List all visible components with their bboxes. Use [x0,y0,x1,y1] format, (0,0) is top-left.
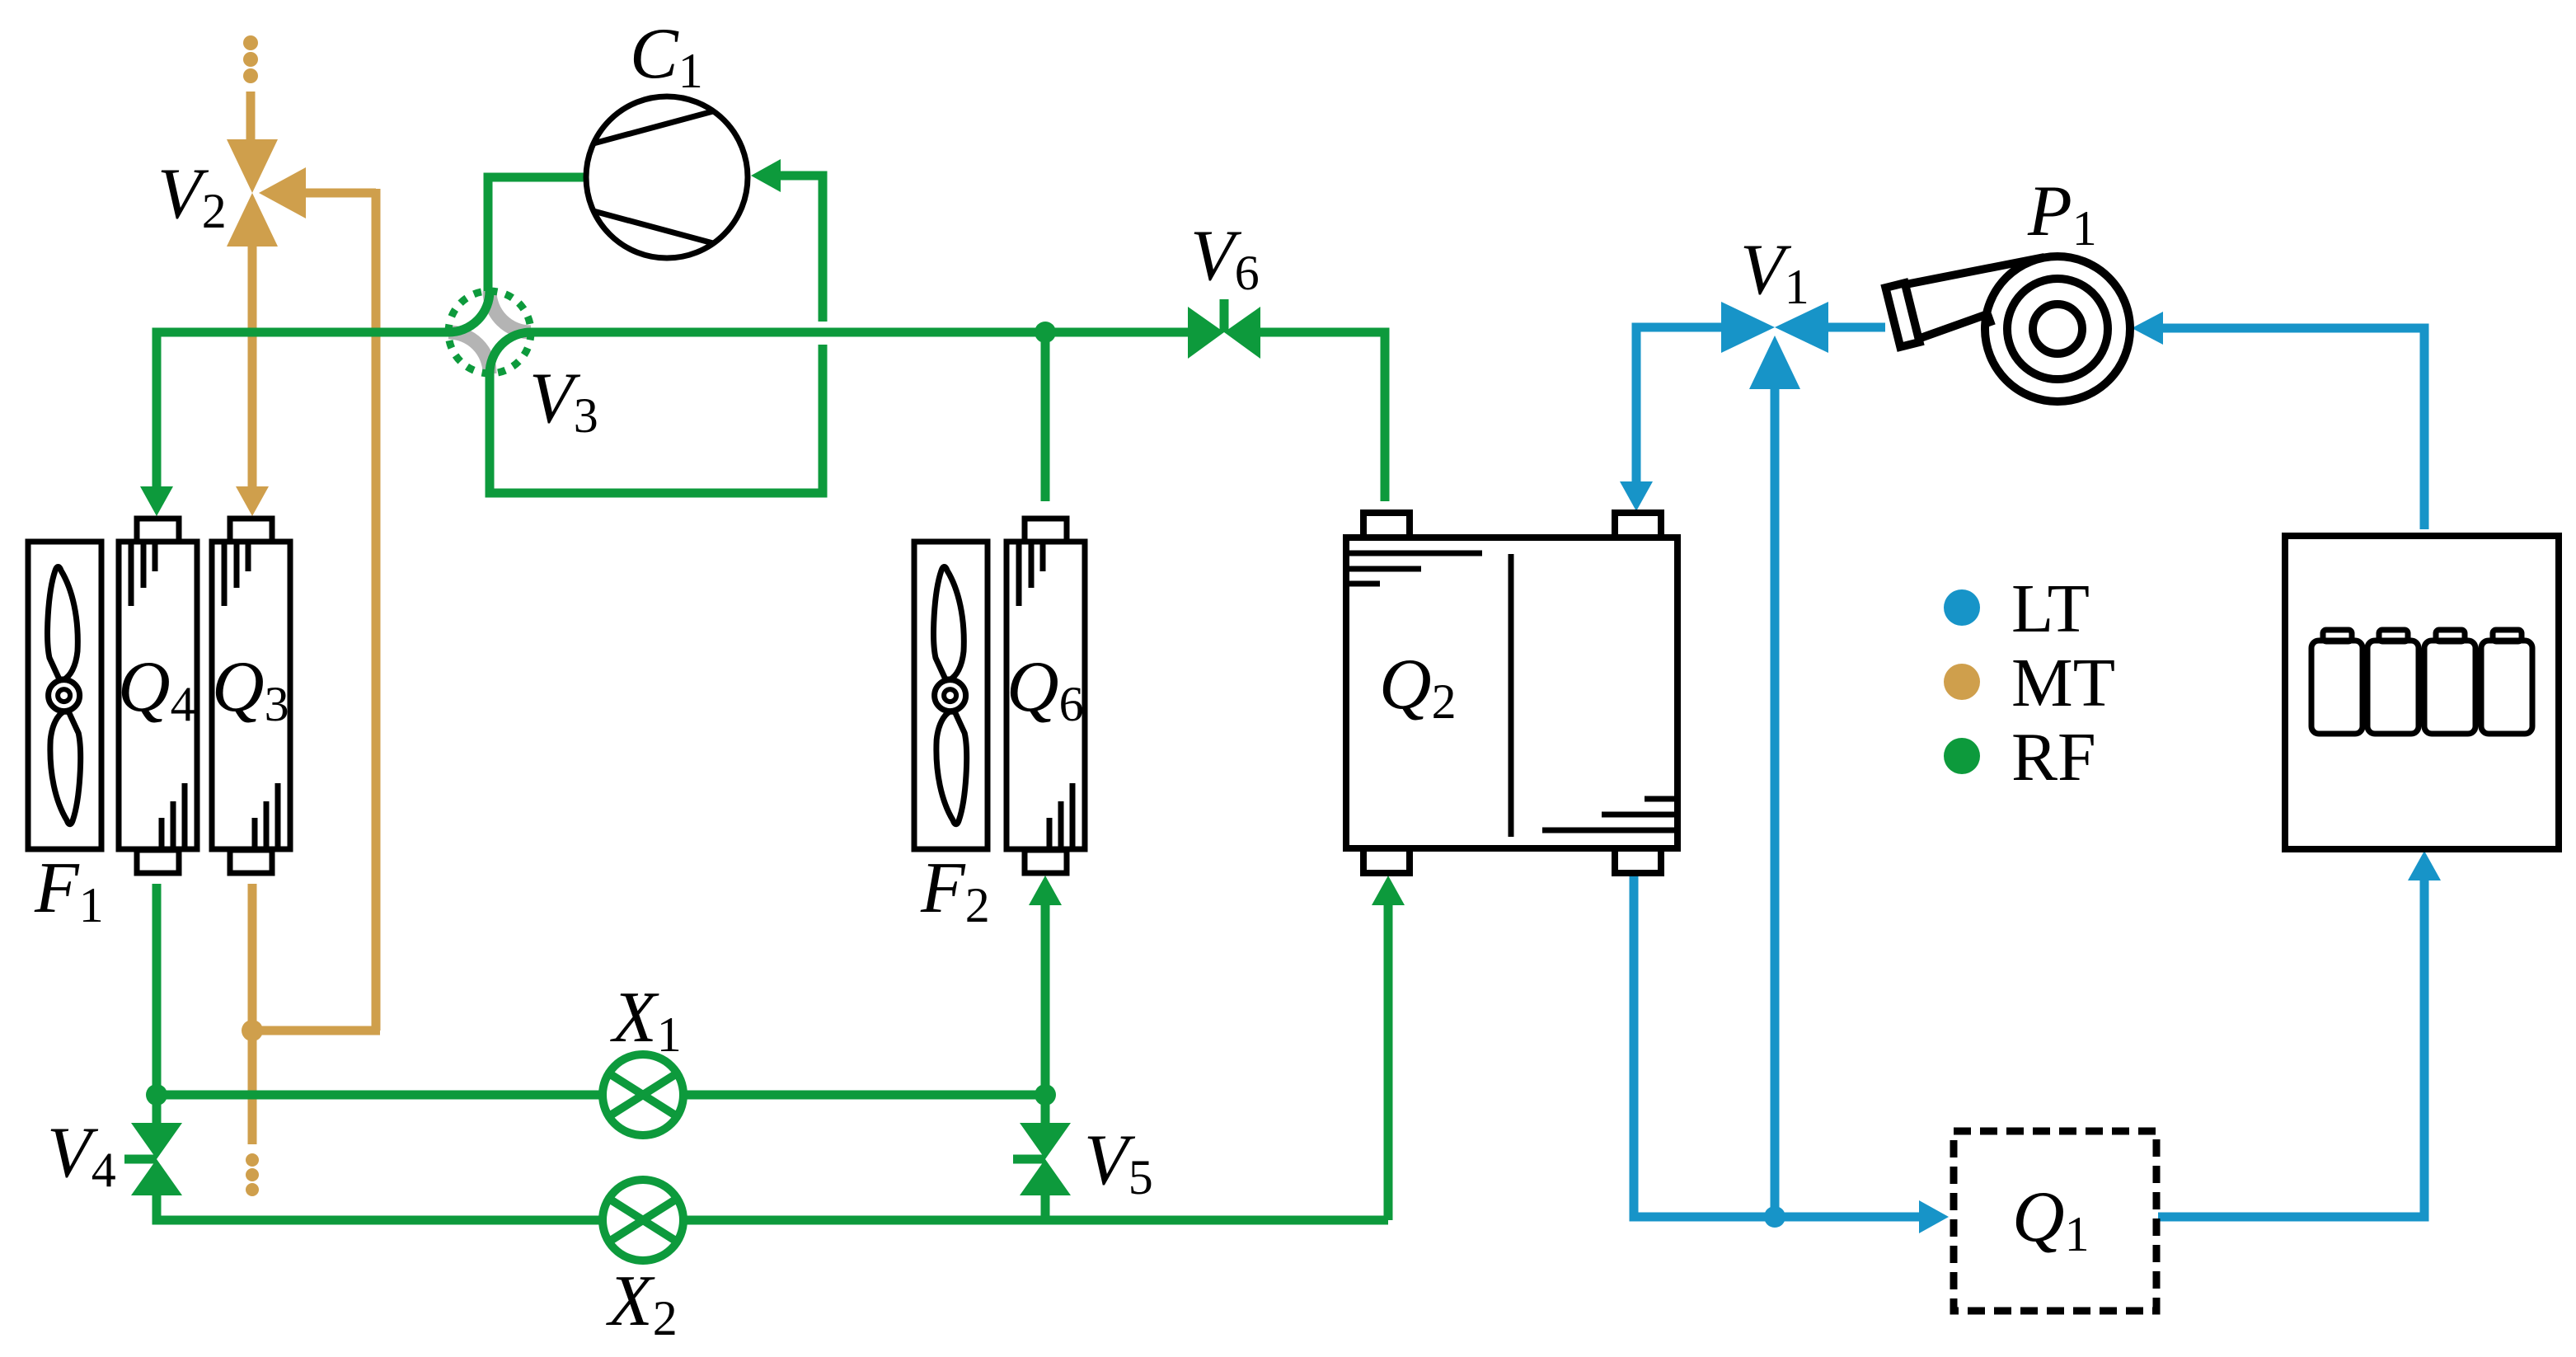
legend RF [1944,738,1980,774]
wire V2 south to Q3 top (arrow) [248,247,257,489]
fan F1 [28,542,101,849]
valve V2 (3-way, tan) [227,139,306,247]
wire bottom horizontal to junction [252,1026,380,1035]
wire Q4 bottom down to X1-line junction [152,884,162,1123]
svg-text:LT: LT [2011,571,2090,647]
junction dot MT [242,1020,263,1041]
compressor C1 [586,96,748,258]
valve V1 (3-way, blue) [1721,302,1828,389]
valve V5 (green) [1041,1095,1050,1123]
wire V4 south to X2 line [157,1195,1388,1220]
wire Q1 east to battery bottom (arrow) [2158,880,2424,1217]
wire X1 line [157,1091,1045,1100]
expansion valve X2 [603,1180,683,1261]
svg-text:RF: RF [2011,719,2096,796]
legend LT [1944,589,1980,626]
wire X2 line up to Q2 bottom-left (arrow) [1384,903,1393,1220]
fan F2 [914,542,988,849]
wire MT dotted continuation (bottom) [246,1153,259,1196]
legend MT [1944,664,1980,700]
pump P1 [1885,256,2130,401]
heat exchanger Q3 [212,519,290,873]
wire battery top to P1 suction (arrow) [2161,328,2424,529]
wire V1 west to Q2 top-right (arrow) [1636,327,1721,481]
wire Q3 bottom down [248,884,257,1144]
wire junction up to Q6 bottom (arrow) [1041,903,1050,1095]
wire V6 to Q2 top-left [1260,332,1385,501]
heat exchanger Q4 [119,519,197,873]
heat exchanger Q2 (plate hx) [1346,513,1677,873]
wire V3 west to Q4 top (arrow) [157,332,448,489]
junction dot main/Q6 [1035,322,1056,343]
wire corner down (x=456) [372,189,381,1031]
wire C1 discharge to V3 north [488,177,586,291]
battery box [2285,536,2559,849]
wire V3 east main line to V6 [531,328,1188,337]
wire MT source dotted continuation (top) [243,35,258,83]
heat load Q1 (dashed box) [1954,1131,2156,1311]
svg-text:MT: MT [2011,645,2115,721]
wire MT into V2 north [246,92,256,140]
heat exchanger Q6 [1006,519,1085,873]
valve V6 (green) [1188,307,1260,359]
4-way valve V3 [448,291,531,373]
wire P1 outlet to V1 east [1828,323,1885,332]
expansion valve X1 [603,1054,683,1135]
valve V4 (green) [131,1123,182,1195]
junction dot Q4/X1 [146,1084,167,1106]
wire V3 south loop to C1 suction (arrow) [490,345,823,493]
junction dot X1/Q6/V5 [1035,1084,1056,1106]
wire V1 south stem down to Q1 line [1771,389,1780,1217]
wire V2 east to corner [306,189,376,198]
wire Q2 bottom-right down and right to Q1 (arrow) [1634,876,1921,1217]
wire junction down to Q6 top [1041,332,1050,501]
junction dot V1-stem/Q1-line [1764,1206,1785,1228]
